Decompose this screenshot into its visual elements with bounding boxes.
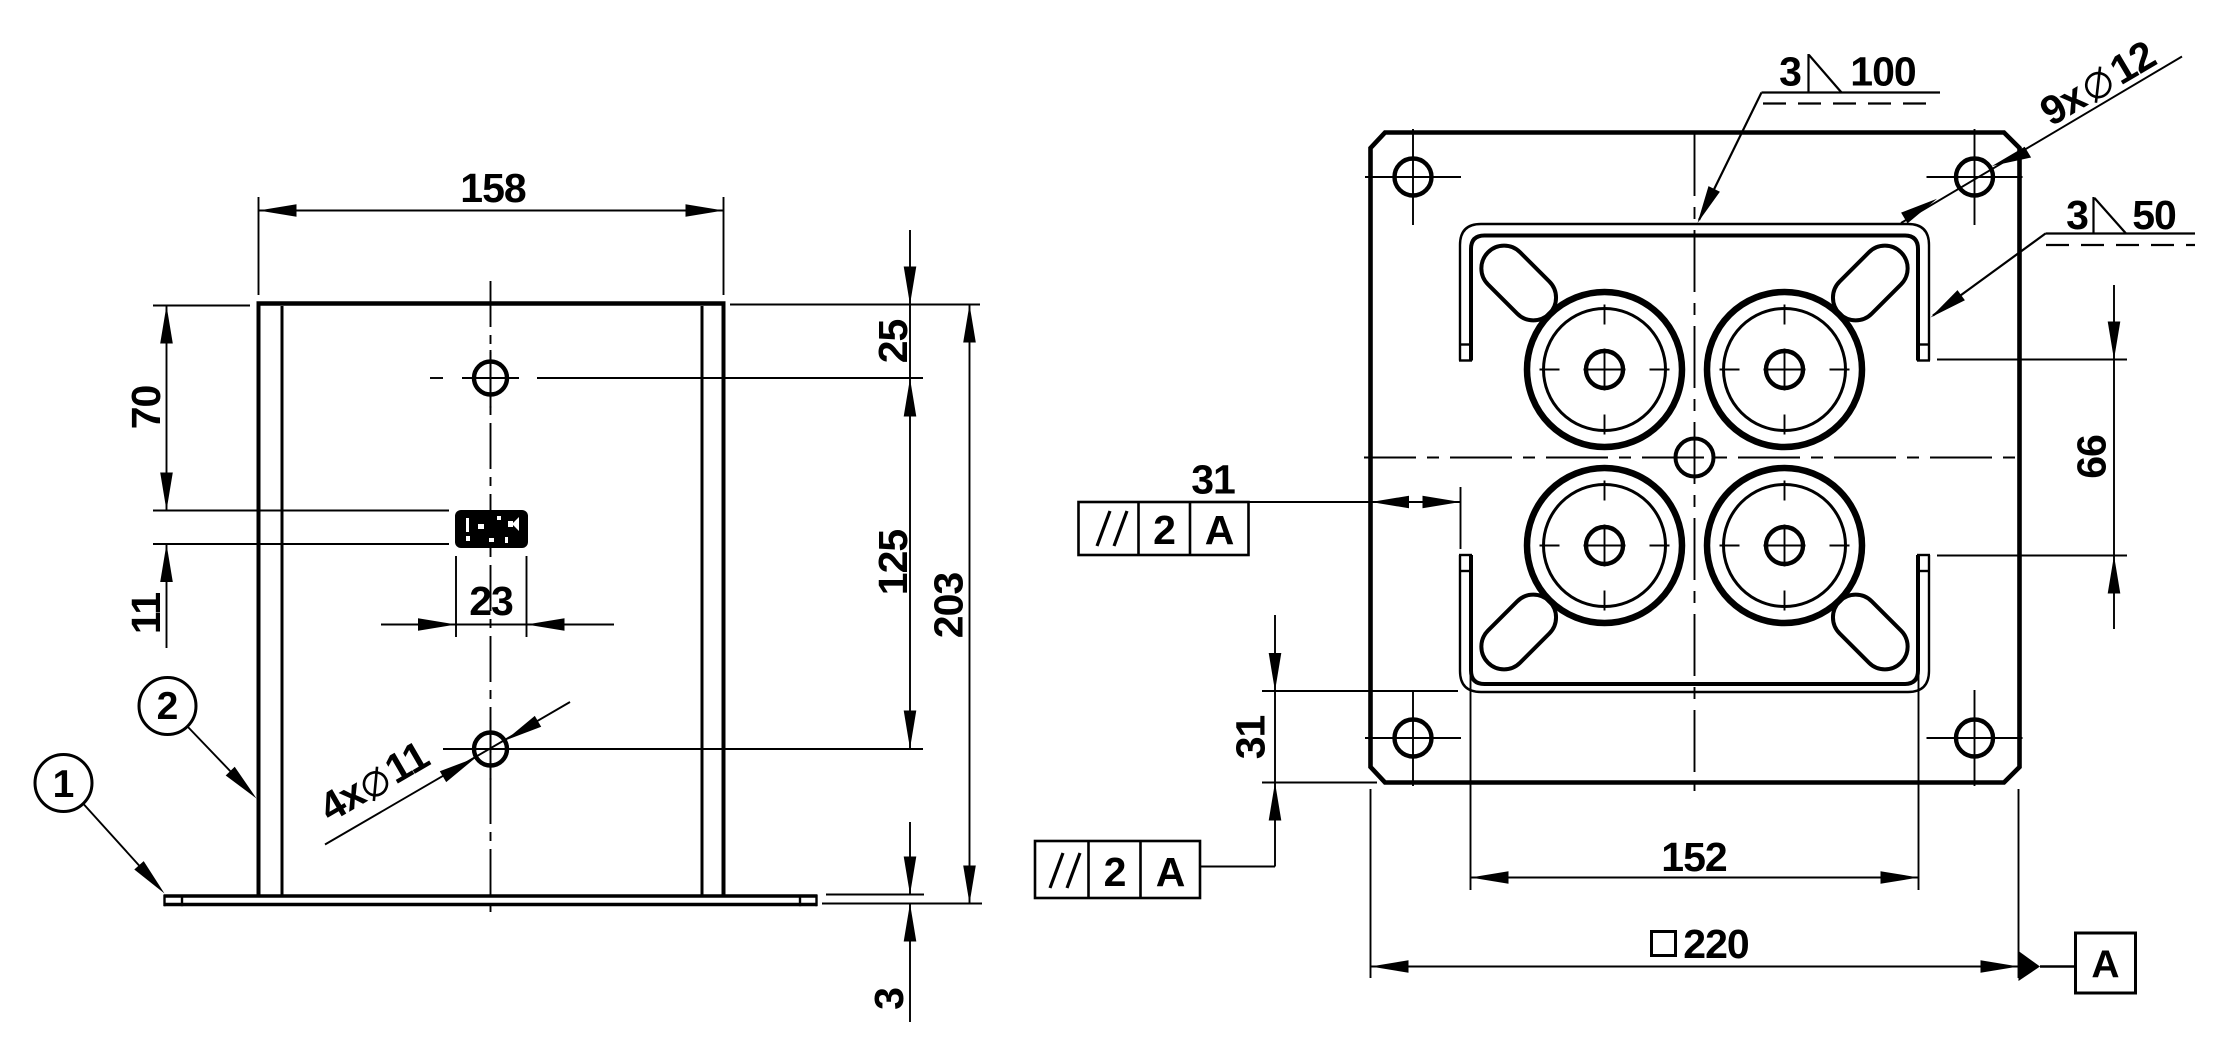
plate vertical centerline — [1694, 124, 1696, 791]
lower clamp strap — [1459, 555, 1930, 692]
upper clamp strap — [1459, 224, 1930, 361]
svg-text:66: 66 — [2069, 435, 2115, 479]
svg-text:A: A — [1156, 849, 1185, 895]
slot bottom right — [1824, 585, 1917, 678]
balloon 2 — [139, 678, 257, 799]
slot top left — [1472, 236, 1565, 329]
hole callout 9x dia 12 — [1901, 32, 2182, 224]
left view bracket item 2 outline — [257, 304, 726, 896]
left view lower hole — [443, 733, 923, 766]
svg-text:70: 70 — [123, 386, 169, 430]
svg-text:158: 158 — [460, 165, 526, 211]
plate horizontal centerline — [1364, 457, 2025, 459]
dimension 203 — [822, 305, 982, 904]
svg-text:1: 1 — [53, 763, 75, 806]
svg-text:11: 11 — [123, 593, 169, 635]
pulley circle top left — [1527, 292, 1682, 447]
top view plate outline square 220 — [1371, 133, 2020, 783]
dimension 31 bottom — [1200, 615, 1458, 867]
dimension 23 — [381, 556, 614, 637]
pulley circle bottom right — [1707, 468, 1862, 623]
hole callout 4x dia 11 — [311, 702, 570, 845]
svg-text:220: 220 — [1683, 921, 1749, 967]
feature control frame parallel 2 A lower — [1035, 841, 1200, 898]
svg-text:31: 31 — [1191, 457, 1235, 503]
svg-text:2: 2 — [1104, 849, 1126, 895]
dimension 158 — [259, 165, 724, 295]
dimension 152 — [1471, 565, 1919, 890]
svg-text:50: 50 — [2132, 192, 2176, 238]
left view base plate item 1 — [164, 895, 817, 907]
svg-text:100: 100 — [1850, 49, 1916, 95]
datum feature symbol A — [2019, 933, 2136, 993]
surface finish symbol 3 50 — [1931, 192, 2196, 318]
svg-text:152: 152 — [1661, 834, 1727, 880]
left view vertical centerline — [490, 281, 492, 920]
corner hole bottom right — [1927, 690, 2023, 786]
svg-text:3: 3 — [866, 988, 912, 1010]
dimension 70 — [123, 306, 449, 511]
svg-text:2: 2 — [157, 685, 179, 728]
svg-text:3: 3 — [2066, 192, 2088, 238]
dimension 66 — [1937, 285, 2127, 629]
dimension square 220 — [1371, 789, 2019, 978]
pulley circle top right — [1707, 292, 1862, 447]
svg-text:31: 31 — [1228, 716, 1274, 760]
svg-text:A: A — [2091, 944, 2119, 987]
svg-text:2: 2 — [1153, 507, 1175, 553]
svg-text:9x: 9x — [2032, 72, 2094, 134]
plate center hole — [1676, 439, 1714, 477]
svg-text:3: 3 — [1779, 49, 1801, 95]
surface finish symbol 3 100 — [1698, 49, 1941, 224]
balloon 1 — [35, 755, 165, 894]
pulley circle bottom left — [1527, 468, 1682, 623]
dimension 25 — [730, 230, 980, 749]
dimension 125 — [870, 530, 916, 749]
slot top right — [1824, 236, 1917, 329]
corner hole top left — [1365, 129, 1461, 225]
svg-text:125: 125 — [870, 530, 916, 596]
svg-text:A: A — [1205, 507, 1234, 553]
dimension 3 — [826, 822, 924, 1022]
corner hole top right — [1927, 129, 2023, 225]
svg-text:23: 23 — [469, 578, 513, 624]
slot bottom left — [1472, 585, 1565, 678]
feature control frame parallel 2 A upper — [1079, 502, 1249, 555]
left view upper hole — [430, 362, 923, 395]
svg-text:25: 25 — [870, 320, 916, 364]
dimension 11 — [123, 544, 449, 648]
corner hole bottom left — [1365, 690, 1461, 786]
label sticker on bracket — [455, 510, 528, 548]
svg-text:203: 203 — [926, 573, 972, 639]
dimension 31 top — [1191, 457, 1460, 550]
